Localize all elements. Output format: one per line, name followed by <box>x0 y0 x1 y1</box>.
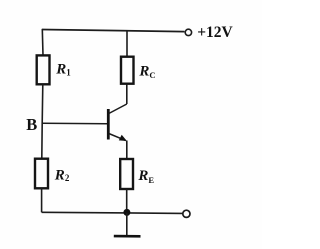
wire: emitter lead down to RE <box>126 141 128 160</box>
wire: bottom rail <box>42 212 183 213</box>
resistor R2 <box>35 159 48 189</box>
wire: collector lead from RC down to transistor <box>126 84 128 104</box>
wire: left vertical from R1 to R2 <box>42 84 43 158</box>
svg-text:B: B <box>26 115 37 134</box>
svg-text:R1: R1 <box>55 62 71 78</box>
transistor Q collector stroke <box>109 104 127 114</box>
terminal bottom-right (open circle) <box>183 210 190 217</box>
svg-text:R2: R2 <box>54 167 70 183</box>
resistor RC <box>121 57 134 84</box>
transistor Q emitter stroke with arrow <box>109 134 126 141</box>
junction node dot <box>123 209 130 216</box>
resistor RE <box>120 159 133 189</box>
wire: left vertical from top rail to R1 <box>41 29 44 56</box>
ground stem <box>126 213 128 236</box>
wire: middle vertical from top rail to RC <box>126 31 128 57</box>
svg-text:+12V: +12V <box>197 24 233 41</box>
wire: base wire from node B to transistor <box>42 122 108 124</box>
wire: left vertical from R2 to bottom rail <box>41 188 43 212</box>
wire: top rail from left corner to +12V terminal <box>42 30 184 32</box>
wire: from RE down to bottom rail junction <box>126 189 128 213</box>
terminal +12V (open circle) <box>185 29 191 35</box>
svg-text:RC: RC <box>138 63 155 80</box>
transistor Q (NPN) base bar <box>107 109 110 140</box>
resistor R1 <box>37 55 50 84</box>
svg-text:RE: RE <box>137 168 154 185</box>
ground bar <box>114 235 141 238</box>
